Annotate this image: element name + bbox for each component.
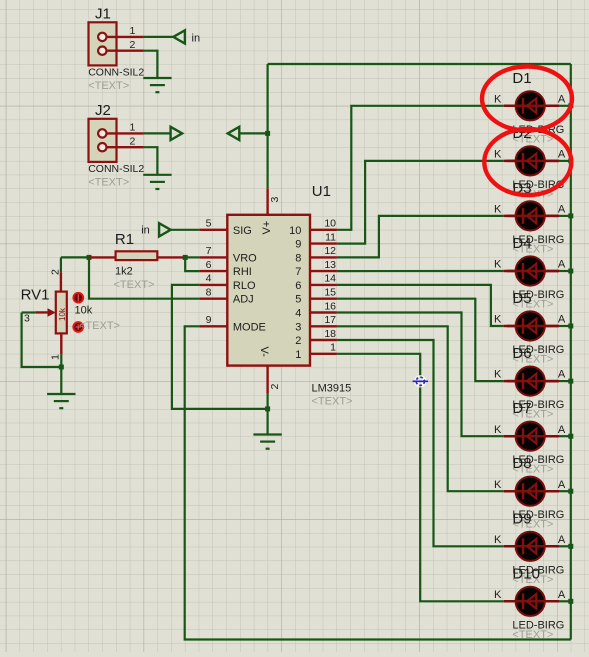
svg-text:9: 9 bbox=[295, 239, 301, 251]
RV1 pin 1 stub bbox=[60, 333, 62, 354]
svg-text:K: K bbox=[494, 93, 502, 105]
svg-text:CONN-SIL2: CONN-SIL2 bbox=[88, 67, 144, 79]
U1 pin 11 stub (L9) bbox=[310, 242, 337, 244]
wire MODE to anode bus (bottom rail) bbox=[185, 326, 571, 639]
wire J2 pin1 to output terminal bbox=[144, 132, 171, 134]
svg-text:D6: D6 bbox=[512, 345, 531, 362]
LED D4 bbox=[504, 256, 559, 285]
U1 pin 6 stub (RHI) bbox=[200, 270, 228, 272]
wire U1 pin 1 to D10 cathode bbox=[337, 354, 504, 602]
wire U1 pin 15 to D6 cathode bbox=[337, 299, 504, 381]
U1 pin 1 stub (L1) bbox=[310, 353, 337, 355]
svg-text:in: in bbox=[141, 224, 150, 236]
svg-text:D9: D9 bbox=[512, 510, 531, 527]
svg-text:A: A bbox=[558, 259, 566, 271]
LED D6 bbox=[504, 367, 559, 396]
red highlight ellipse around D2 bbox=[484, 129, 571, 195]
svg-text:1: 1 bbox=[330, 342, 336, 354]
wire U1 pin 17 to D8 cathode bbox=[337, 326, 504, 491]
svg-text:R1: R1 bbox=[115, 231, 134, 248]
resistor R1 bbox=[116, 251, 158, 260]
svg-text:13: 13 bbox=[324, 259, 336, 271]
wire anode bus (right) bbox=[570, 64, 572, 640]
wire J1 pin2 to ground bbox=[144, 51, 158, 78]
ground (J2) bbox=[143, 175, 171, 189]
svg-text:ADJ: ADJ bbox=[233, 294, 254, 306]
junction anode bus at D9 bbox=[568, 544, 573, 549]
svg-text:K: K bbox=[494, 314, 502, 326]
svg-text:A: A bbox=[558, 149, 566, 161]
svg-text:SIG: SIG bbox=[233, 225, 252, 237]
junction V+ line / input terminal bbox=[265, 131, 270, 136]
svg-text:<TEXT>: <TEXT> bbox=[114, 279, 155, 291]
wire D2 anode to bus bbox=[559, 160, 571, 162]
junction anode bus at D1 bbox=[568, 103, 573, 108]
svg-text:D5: D5 bbox=[512, 290, 531, 307]
svg-text:14: 14 bbox=[324, 273, 336, 285]
junction anode bus at D2 bbox=[568, 158, 573, 163]
svg-text:8: 8 bbox=[206, 287, 212, 299]
svg-text:<TEXT>: <TEXT> bbox=[312, 396, 353, 408]
RV1 origin marker bottom bbox=[73, 322, 83, 332]
J1 pin 2 stub bbox=[106, 50, 144, 52]
wire D8 anode to bus bbox=[559, 490, 571, 492]
svg-text:1: 1 bbox=[295, 349, 301, 361]
svg-text:A: A bbox=[558, 93, 566, 105]
junction R1 left / ADJ / RV1 bbox=[87, 255, 92, 260]
wire ADJ to R1 left node bbox=[89, 257, 200, 298]
wire D9 anode to bus bbox=[559, 545, 571, 547]
svg-text:1k2: 1k2 bbox=[115, 265, 133, 277]
U1 pin 13 stub (L7) bbox=[310, 270, 337, 272]
svg-text:10k: 10k bbox=[58, 307, 67, 321]
connector J1 bbox=[89, 22, 117, 65]
svg-text:V-: V- bbox=[258, 347, 270, 358]
svg-text:D4: D4 bbox=[512, 235, 531, 252]
svg-text:6: 6 bbox=[295, 280, 301, 292]
svg-text:3: 3 bbox=[295, 321, 301, 333]
svg-text:17: 17 bbox=[324, 314, 336, 326]
svg-text:A: A bbox=[558, 369, 566, 381]
wire RLO to V- node bbox=[172, 285, 268, 409]
wire R1 to U1 RHI bbox=[185, 257, 199, 271]
U1 pin 2 stub (V-) bbox=[266, 366, 268, 394]
svg-text:5: 5 bbox=[206, 218, 212, 230]
U1 pin 12 stub (L8) bbox=[310, 256, 337, 258]
wire U1 pin 18 to D9 cathode bbox=[337, 340, 504, 546]
junction anode bus at D10 bbox=[568, 599, 573, 604]
svg-text:3: 3 bbox=[269, 197, 281, 203]
svg-text:K: K bbox=[494, 589, 502, 601]
wire U1 pin 12 to D3 cathode bbox=[337, 216, 504, 258]
U1 pin 10 stub (L10) bbox=[310, 229, 337, 231]
U1 pin 5 stub (SIG) bbox=[200, 229, 228, 231]
wire U1 pin 14 to D5 cathode bbox=[337, 285, 504, 326]
wire J2 pin2 to ground bbox=[144, 147, 158, 175]
junction R1 right / RHI / VRO bbox=[183, 255, 188, 260]
ground (J1) bbox=[143, 78, 171, 92]
R1 right stub bbox=[157, 256, 185, 258]
junction anode bus at D5 bbox=[568, 324, 573, 329]
wire D10 anode to bus bbox=[559, 600, 571, 602]
U1 pin 7 stub (VRO) bbox=[200, 256, 228, 258]
svg-text:3: 3 bbox=[24, 313, 30, 325]
wire R1 to U1 VRO bbox=[185, 256, 199, 258]
junction anode bus at D3 bbox=[568, 213, 573, 218]
svg-text:7: 7 bbox=[295, 266, 301, 278]
svg-text:10: 10 bbox=[289, 225, 301, 237]
wire U1 pin 16 to D7 cathode bbox=[337, 313, 504, 437]
LED D8 bbox=[504, 477, 559, 506]
LED D3 bbox=[504, 201, 559, 230]
svg-text:K: K bbox=[494, 369, 502, 381]
svg-text:10: 10 bbox=[324, 218, 336, 230]
svg-text:D8: D8 bbox=[512, 455, 531, 472]
svg-text:J2: J2 bbox=[95, 102, 111, 119]
U1 pin 8 stub (ADJ) bbox=[200, 298, 228, 300]
svg-text:A: A bbox=[558, 534, 566, 546]
svg-text:12: 12 bbox=[324, 245, 336, 257]
svg-text:RV1: RV1 bbox=[21, 287, 50, 304]
LED D5 bbox=[504, 311, 559, 340]
terminal input (to V+ rail) bbox=[228, 127, 240, 140]
op-amp/driver U1 LM3915 body bbox=[227, 215, 310, 366]
connector J2 bbox=[89, 119, 117, 162]
wire J1 pin1 to IN terminal bbox=[144, 36, 174, 38]
svg-text:9: 9 bbox=[206, 314, 212, 326]
LED D7 bbox=[504, 422, 559, 451]
wire RV1 pin1 to ground bbox=[60, 354, 62, 394]
svg-text:10k: 10k bbox=[75, 305, 93, 317]
wire V+ vertical to U1 pin 3 bbox=[267, 64, 269, 188]
wire RV1 wiper to pin1 node bbox=[22, 313, 62, 368]
wire D4 anode to bus bbox=[559, 270, 571, 272]
svg-text:<TEXT>: <TEXT> bbox=[88, 176, 129, 188]
junction V- / RLO bbox=[265, 406, 270, 411]
svg-text:D10: D10 bbox=[512, 565, 540, 582]
junction anode bus at D7 bbox=[568, 434, 573, 439]
svg-text:A: A bbox=[558, 424, 566, 436]
LED D1 bbox=[504, 91, 559, 120]
wire top V+ rail bbox=[268, 63, 571, 65]
wire RV1 wiper green part bbox=[22, 311, 36, 313]
svg-text:U1: U1 bbox=[312, 183, 331, 200]
U1 pin 17 stub (L3) bbox=[310, 325, 337, 327]
svg-text:K: K bbox=[494, 534, 502, 546]
U1 pin 16 stub (L4) bbox=[310, 311, 337, 313]
junction anode bus at D6 bbox=[568, 379, 573, 384]
svg-text:D1: D1 bbox=[512, 70, 531, 87]
RV1 pin 2 stub bbox=[60, 272, 62, 291]
wire IN terminal to U1 SIG bbox=[171, 229, 200, 231]
wire D3 anode to bus bbox=[559, 215, 571, 217]
terminal IN (SIG) bbox=[159, 223, 171, 236]
svg-text:CONN-SIL2: CONN-SIL2 bbox=[88, 163, 144, 175]
svg-text:<TEXT>: <TEXT> bbox=[512, 629, 553, 641]
svg-text:2: 2 bbox=[295, 335, 301, 347]
potentiometer RV1 bbox=[56, 292, 67, 334]
svg-text:18: 18 bbox=[324, 328, 336, 340]
svg-text:5: 5 bbox=[295, 294, 301, 306]
svg-text:8: 8 bbox=[295, 252, 301, 264]
LED D10 bbox=[504, 587, 559, 616]
wire D6 anode to bus bbox=[559, 380, 571, 382]
svg-text:2: 2 bbox=[130, 136, 136, 148]
svg-text:D7: D7 bbox=[512, 400, 531, 417]
junction RV1 pin1 / wiper bbox=[59, 365, 64, 370]
LED D9 bbox=[504, 532, 559, 561]
svg-text:K: K bbox=[494, 204, 502, 216]
U1 pin 4 stub (RLO) bbox=[200, 284, 228, 286]
blue origin crosshair marker bbox=[414, 375, 426, 387]
RV1 wiper arrow bbox=[35, 311, 51, 313]
wire D5 anode to bus bbox=[559, 325, 571, 327]
svg-text:1: 1 bbox=[130, 25, 136, 37]
svg-text:A: A bbox=[558, 589, 566, 601]
junction anode bus at D8 bbox=[568, 489, 573, 494]
J1 pin 1 stub bbox=[106, 36, 144, 38]
svg-text:A: A bbox=[558, 479, 566, 491]
wire D7 anode to bus bbox=[559, 435, 571, 437]
svg-text:K: K bbox=[494, 479, 502, 491]
svg-text:2: 2 bbox=[50, 269, 62, 275]
svg-text:RLO: RLO bbox=[233, 280, 256, 292]
wire V- to ground bbox=[267, 393, 269, 434]
svg-text:<TEXT>: <TEXT> bbox=[88, 80, 129, 92]
U1 pin 3 stub (V+) bbox=[266, 188, 268, 215]
svg-text:LM3915: LM3915 bbox=[312, 383, 352, 395]
wire RV1 top to R1 left bbox=[61, 256, 89, 258]
U1 pin 15 stub (L5) bbox=[310, 298, 337, 300]
svg-text:RHI: RHI bbox=[233, 266, 252, 278]
wire U1 pin 10 to D1 cathode bbox=[337, 106, 504, 230]
J2 pin 1 stub bbox=[106, 132, 144, 134]
wire R1 junction down to RV1 pin2 bbox=[60, 257, 62, 272]
wire input terminal to V+ line bbox=[240, 132, 268, 134]
LED D2 bbox=[504, 146, 559, 175]
ground (RV1) bbox=[47, 394, 75, 408]
svg-text:K: K bbox=[494, 259, 502, 271]
U1 pin 18 stub (L2) bbox=[310, 339, 337, 341]
svg-text:6: 6 bbox=[206, 259, 212, 271]
wire U1 pin 11 to D2 cathode bbox=[337, 161, 504, 244]
wire U1 pin 13 to D4 cathode bbox=[337, 270, 504, 272]
svg-text:2: 2 bbox=[130, 39, 136, 51]
svg-text:<TEXT>: <TEXT> bbox=[79, 320, 120, 332]
ground (U1 V-) bbox=[253, 435, 281, 449]
svg-text:in: in bbox=[192, 32, 201, 44]
RV1 origin marker top bbox=[73, 293, 83, 303]
U1 pin 14 stub (L6) bbox=[310, 284, 337, 286]
svg-text:4: 4 bbox=[206, 273, 212, 285]
terminal output (J2) bbox=[171, 127, 183, 140]
svg-text:4: 4 bbox=[295, 308, 301, 320]
J2 pin 2 stub bbox=[106, 146, 144, 148]
terminal IN (top) bbox=[173, 30, 185, 43]
svg-text:MODE: MODE bbox=[233, 321, 266, 333]
svg-text:VRO: VRO bbox=[233, 252, 257, 264]
R1 left stub bbox=[89, 256, 116, 258]
wire D1 anode to bus bbox=[559, 105, 571, 107]
svg-text:2: 2 bbox=[269, 384, 281, 390]
svg-text:K: K bbox=[494, 149, 502, 161]
junction anode bus at D4 bbox=[568, 269, 573, 274]
svg-text:K: K bbox=[494, 424, 502, 436]
svg-text:A: A bbox=[558, 204, 566, 216]
svg-text:15: 15 bbox=[324, 287, 336, 299]
svg-text:11: 11 bbox=[325, 231, 336, 243]
svg-text:1: 1 bbox=[50, 354, 62, 360]
svg-text:J1: J1 bbox=[95, 5, 111, 22]
svg-text:A: A bbox=[558, 314, 566, 326]
svg-text:1: 1 bbox=[130, 122, 136, 134]
red highlight ellipse around D1 bbox=[482, 67, 572, 131]
svg-text:7: 7 bbox=[206, 245, 212, 257]
svg-text:V+: V+ bbox=[261, 221, 273, 235]
U1 pin 9 stub (MODE) bbox=[200, 325, 228, 327]
svg-text:16: 16 bbox=[324, 300, 336, 312]
